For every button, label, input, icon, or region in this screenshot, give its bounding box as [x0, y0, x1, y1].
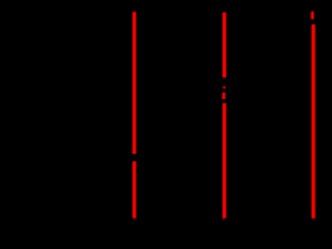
junction J2: [310, 19, 315, 24]
wire top bus (node A): [134, 9, 313, 11]
voltage source V1: [211, 78, 236, 103]
wire (red net 3, lower segment): [312, 24, 316, 218]
wire (red net 2, lower segment): [223, 103, 227, 218]
wire (red net 3, fading tail at bottom bus): [312, 219, 314, 220]
junction J1: [131, 154, 138, 161]
wire (red net 1, top tip): [134, 11, 136, 12]
wire (red net 3, upper segment): [311, 12, 314, 19]
wire (red net 1, upper segment): [133, 12, 137, 154]
wire (red net 2, upper segment): [223, 12, 227, 77]
wire (red net 2, mid segment dim left edge): [221, 96, 222, 99]
wire (red net 2, short dash inside V1): [223, 86, 226, 89]
wire (red net 3, top tip): [312, 11, 314, 12]
wire (red net 2, mid segment): [222, 92, 225, 99]
wire bottom bus (node B): [134, 219, 313, 221]
wire (red net 1, fading tail at bottom bus): [133, 219, 135, 221]
wire (red net 1, lower segment): [133, 161, 137, 218]
wire (red net 3, faint glow inside junction gap): [312, 20, 314, 21]
wire (red net 2, fading tail at bottom bus): [222, 219, 224, 220]
